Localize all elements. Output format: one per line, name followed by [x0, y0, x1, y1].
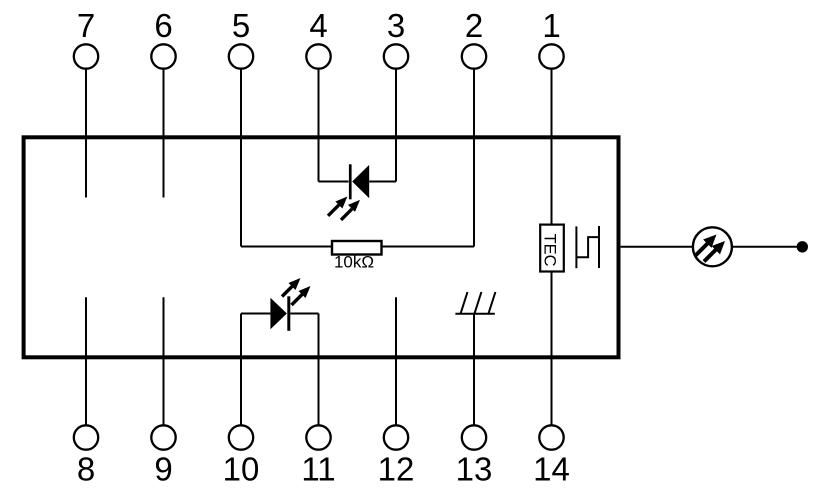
wire pin 11 lead	[318, 314, 320, 426]
laser diode emission arrow 1	[282, 278, 301, 297]
svg-text:8: 8	[77, 451, 95, 488]
pin 7 terminal	[74, 44, 98, 68]
wire pin 12 lead	[395, 297, 397, 425]
TEC element body	[540, 225, 564, 272]
photodiode incoming light arrow 2	[341, 200, 360, 220]
wire pin 8 lead	[85, 297, 87, 425]
svg-text:14: 14	[533, 451, 570, 488]
laser diode emission arrow 2	[292, 286, 311, 305]
thermistor wire left (pin 5 side)	[241, 246, 332, 248]
fiber pigtail dot	[797, 241, 808, 252]
svg-text:10: 10	[223, 451, 260, 488]
wire case to output	[621, 246, 693, 248]
thermistor body 10kΩ	[332, 241, 382, 255]
wire pin 10 lead	[240, 314, 242, 426]
photodiode cathode bar	[349, 164, 352, 199]
pin 13 terminal	[462, 425, 486, 449]
fiber output symbol circle	[693, 227, 732, 266]
fiber output arrow 2	[704, 241, 725, 262]
thermistor step symbol right plate	[598, 226, 600, 268]
wire pin 6 lead	[163, 69, 165, 198]
pin 5 terminal	[229, 44, 253, 68]
svg-text:12: 12	[378, 451, 415, 488]
wire pin 5 lead	[240, 69, 242, 247]
wire pin 4 lead	[318, 69, 320, 182]
svg-text:TEC: TEC	[541, 234, 559, 267]
wire pin 2 lead	[473, 69, 475, 247]
case ground slash 1	[461, 292, 468, 314]
fiber output arrow 1	[696, 235, 717, 256]
pin 3 terminal	[384, 44, 408, 68]
svg-text:9: 9	[154, 451, 172, 488]
pin 14 terminal	[539, 425, 563, 449]
laser diode cathode bar	[287, 296, 290, 331]
pin 1 terminal	[539, 44, 563, 68]
wire pin 7 lead	[85, 69, 87, 198]
svg-text:4: 4	[309, 7, 327, 44]
svg-text:5: 5	[232, 7, 250, 44]
pin 10 terminal	[229, 425, 253, 449]
package case outline	[24, 137, 619, 357]
pin 4 terminal	[306, 44, 330, 68]
pin 2 terminal	[462, 44, 486, 68]
laser diode triangle	[270, 298, 287, 330]
laser diode wire left (pin 10 side)	[241, 313, 270, 315]
svg-text:3: 3	[387, 7, 405, 44]
pin 9 terminal	[151, 425, 175, 449]
photodiode wire left (pin 4 side)	[319, 181, 349, 183]
photodiode wire right (pin 3 side)	[369, 181, 396, 183]
svg-text:6: 6	[154, 7, 172, 44]
case ground slash 2	[474, 292, 481, 314]
laser diode wire right (pin 11 side)	[290, 313, 318, 315]
wire output to fiber dot	[732, 246, 800, 248]
pin 11 terminal	[306, 425, 330, 449]
wire pin 9 lead	[163, 297, 165, 425]
pin 8 terminal	[74, 425, 98, 449]
wire pin 3 lead	[395, 69, 397, 182]
svg-text:1: 1	[542, 7, 560, 44]
thermistor step symbol step	[576, 237, 599, 257]
case ground slash 3	[488, 292, 495, 314]
svg-text:2: 2	[465, 7, 483, 44]
thermistor wire right (pin 2 side)	[382, 246, 475, 248]
photodiode incoming light arrow 1	[328, 197, 347, 216]
thermistor step symbol left plate	[575, 226, 577, 268]
photodiode triangle	[352, 165, 369, 198]
case ground bar	[455, 313, 494, 315]
pin 6 terminal	[151, 44, 175, 68]
svg-text:13: 13	[456, 451, 493, 488]
wire pin 1 lead	[551, 69, 553, 225]
pin 12 terminal	[384, 425, 408, 449]
wire pin 14 lead	[551, 272, 553, 426]
svg-text:10kΩ: 10kΩ	[334, 253, 374, 272]
wire pin 13 lead	[473, 314, 475, 426]
svg-text:7: 7	[77, 7, 95, 44]
svg-text:11: 11	[301, 451, 335, 488]
